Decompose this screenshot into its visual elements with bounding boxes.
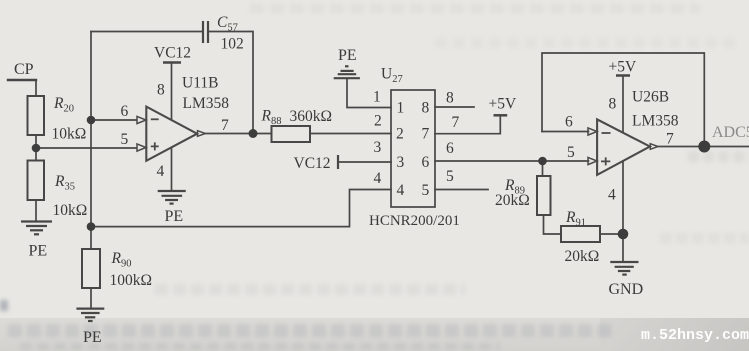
wire R88 to U27 pin2 xyxy=(310,133,391,135)
svg-text:C57: C57 xyxy=(217,14,238,34)
svg-text:2: 2 xyxy=(396,126,404,143)
wire R89 top stub xyxy=(542,161,544,176)
svg-text:100kΩ: 100kΩ xyxy=(110,272,153,289)
wire U26B pin8 from +5V xyxy=(622,76,624,133)
svg-text:360kΩ: 360kΩ xyxy=(290,108,333,125)
svg-text:U26B: U26B xyxy=(632,89,669,106)
svg-text:ADC5: ADC5 xyxy=(712,124,749,141)
svg-text:CP: CP xyxy=(14,61,34,78)
svg-text:10kΩ: 10kΩ xyxy=(52,126,87,143)
svg-text:20kΩ: 20kΩ xyxy=(565,248,600,265)
svg-text:PE: PE xyxy=(83,329,102,346)
svg-text:1: 1 xyxy=(397,100,405,117)
wire pin6 input xyxy=(91,119,137,121)
resistor R91 xyxy=(561,226,600,242)
wire CP to R20 xyxy=(35,80,37,96)
svg-text:R35: R35 xyxy=(54,173,75,193)
svg-text:U27: U27 xyxy=(381,66,403,86)
svg-text:U11B: U11B xyxy=(182,75,218,92)
capacitor C57 xyxy=(203,21,208,43)
svg-text:HCNR200/201: HCNR200/201 xyxy=(369,213,460,229)
wire R20 to R35 through node xyxy=(35,135,37,161)
svg-text:PE: PE xyxy=(29,243,48,260)
svg-text:6: 6 xyxy=(422,154,430,171)
svg-text:R88: R88 xyxy=(261,108,282,128)
wire R91 to GND node xyxy=(600,233,623,235)
wire VC12 to U27 pin3 xyxy=(338,161,391,163)
junction node op-amp1 output/C57 xyxy=(249,129,258,138)
junction node bottom wire/R90 xyxy=(87,222,96,231)
svg-text:7: 7 xyxy=(666,131,674,148)
wire U27 pin5 stub xyxy=(435,189,488,191)
svg-text:7: 7 xyxy=(221,117,229,134)
op-amp U11B xyxy=(137,107,205,161)
junction node R91/GND xyxy=(618,229,629,240)
svg-text:PE: PE xyxy=(165,208,184,225)
svg-text:7: 7 xyxy=(452,114,460,131)
wire feedback left vertical down to R90 xyxy=(90,32,92,250)
svg-text:2: 2 xyxy=(374,113,382,130)
svg-text:PE: PE xyxy=(338,47,357,64)
svg-text:R20: R20 xyxy=(53,95,74,115)
svg-text:8: 8 xyxy=(422,100,430,117)
junction node R89/pin6 wire xyxy=(538,157,547,166)
svg-text:102: 102 xyxy=(221,36,244,53)
ground PE below R35 xyxy=(21,222,52,235)
watermark xyxy=(641,327,749,344)
wire U26B pin6 input xyxy=(542,131,589,133)
svg-text:7: 7 xyxy=(422,126,430,143)
wire capacitor to right vertical xyxy=(208,32,253,134)
decorative bleed-through & scan artifacts xyxy=(250,4,700,13)
svg-text:5: 5 xyxy=(121,131,129,148)
svg-text:LM358: LM358 xyxy=(632,113,679,130)
svg-text:3: 3 xyxy=(374,139,382,156)
ground PE below op-amp U11B xyxy=(158,191,186,204)
svg-text:10kΩ: 10kΩ xyxy=(53,202,88,219)
ground PE above U27 pin1 (inverted) xyxy=(334,66,360,78)
svg-text:8: 8 xyxy=(157,82,165,99)
power +5V bar (U26B pin8) xyxy=(616,74,630,77)
svg-text:4: 4 xyxy=(397,182,405,199)
wire op-amp1 pin8 from VC12 xyxy=(171,63,173,119)
svg-text:3: 3 xyxy=(397,154,405,171)
power VC12 bar (op-amp1 pin8) xyxy=(163,61,181,64)
wire bottom long net to U27 pin4 xyxy=(91,190,391,227)
terminal VC12 bar (U27 pin3) xyxy=(337,155,339,169)
wire op-amp1 output to R88 xyxy=(205,133,272,135)
svg-text:R91: R91 xyxy=(565,209,586,229)
svg-text:6: 6 xyxy=(446,140,454,157)
wire U27 pin8 stub xyxy=(435,106,474,108)
svg-text:6: 6 xyxy=(121,103,129,120)
svg-text:LM358: LM358 xyxy=(183,95,230,112)
ground PE below R90 xyxy=(76,309,104,321)
svg-text:6: 6 xyxy=(565,114,573,131)
junction node pin6/feedback xyxy=(87,116,96,125)
svg-text:+5V: +5V xyxy=(609,59,637,76)
svg-text:4: 4 xyxy=(374,170,382,187)
optocoupler U27 HCNR200/201 xyxy=(391,90,435,207)
svg-text:20kΩ: 20kΩ xyxy=(495,192,530,209)
svg-text:8: 8 xyxy=(609,96,617,113)
wire node A to op-amp pin5 xyxy=(36,147,137,149)
svg-text:4: 4 xyxy=(157,163,165,180)
wire U27 pin6 to U26B pin5 xyxy=(435,160,589,162)
wire top rail to capacitor xyxy=(91,31,203,33)
svg-text:4: 4 xyxy=(608,187,616,204)
resistor R90 xyxy=(82,249,100,288)
ground GND below U26B xyxy=(610,262,638,275)
svg-text:R90: R90 xyxy=(111,250,132,270)
power +5V bar (U27 pin7) xyxy=(494,114,508,117)
svg-text:5: 5 xyxy=(422,182,430,199)
svg-text:5: 5 xyxy=(567,144,575,161)
wire U26B output to ADC5 xyxy=(657,146,749,148)
resistor R88 xyxy=(272,126,311,142)
resistor R20 xyxy=(28,96,45,135)
op-amp U26B xyxy=(588,119,658,174)
wire R89 bottom to R91 xyxy=(544,215,562,234)
svg-text:+5V: +5V xyxy=(489,96,517,113)
svg-text:1: 1 xyxy=(373,89,381,106)
node CP terminal xyxy=(8,79,36,81)
wire U27 pin7 to +5V xyxy=(435,116,500,134)
wire U26B feedback loop xyxy=(542,53,704,147)
wire R90 to ground xyxy=(90,288,92,308)
svg-text:VC12: VC12 xyxy=(154,45,191,62)
resistor R89 xyxy=(537,176,551,215)
junction node U26B output/feedback xyxy=(698,141,710,153)
wire U26B pin4 to GND xyxy=(622,161,624,261)
svg-text:GND: GND xyxy=(609,281,644,298)
junction node R20/R35/pin5 xyxy=(32,144,41,153)
wire R35 to ground xyxy=(35,200,37,221)
resistor R35 xyxy=(28,161,45,201)
wire PE to U27 pin1 xyxy=(347,79,391,108)
svg-text:8: 8 xyxy=(446,90,454,107)
wire op-amp1 pin4 to PE xyxy=(171,148,173,190)
svg-text:VC12: VC12 xyxy=(294,155,331,172)
svg-text:5: 5 xyxy=(446,168,454,185)
